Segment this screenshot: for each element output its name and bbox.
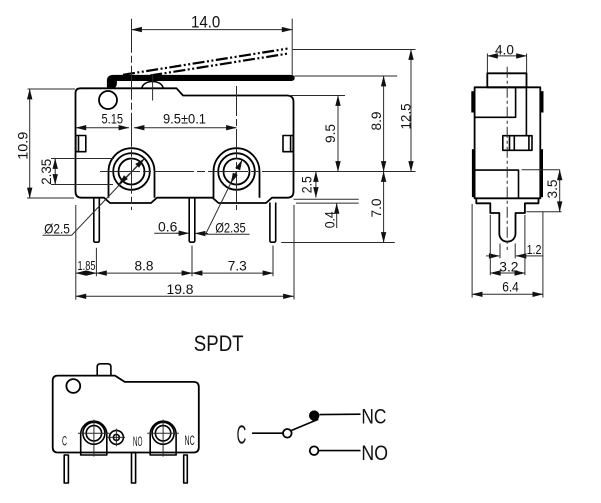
svg-text:5.15: 5.15 bbox=[102, 112, 124, 127]
front view right notch bbox=[283, 136, 293, 152]
bottom extension lines and pin centerlines bbox=[76, 205, 294, 300]
dimension 8.9 bbox=[369, 76, 384, 172]
svg-text:Ø2.5: Ø2.5 bbox=[44, 220, 70, 236]
dimension 14.0 bbox=[132, 14, 293, 75]
side view lower tab left bbox=[472, 149, 475, 197]
leader and label Ø2.35 bbox=[206, 160, 250, 236]
terminal hole 1 housing bbox=[109, 148, 155, 198]
side view inner rectangle bottom bbox=[475, 170, 519, 198]
terminal hole 1 circles bbox=[113, 153, 150, 190]
dimension 12.5 bbox=[398, 50, 413, 172]
side view button bbox=[487, 73, 526, 87]
svg-text:1.85: 1.85 bbox=[78, 259, 96, 273]
side view base step and pin bbox=[476, 198, 538, 241]
dimension 3.5 bbox=[522, 170, 562, 212]
side view top tab right bbox=[540, 91, 543, 112]
dimension 9.5 vertical bbox=[323, 96, 338, 172]
dimension 9.5±0.1 bbox=[134, 112, 237, 128]
dimension 10.9 bbox=[15, 89, 75, 198]
dimension 2.5 vertical bbox=[299, 172, 316, 198]
side view vertical centerline bbox=[506, 67, 508, 250]
small switch label C bbox=[62, 434, 67, 449]
small switch right terminal circles bbox=[147, 420, 179, 457]
side view inner rectangle top bbox=[475, 87, 516, 117]
dimension 1.2 bbox=[486, 242, 543, 258]
plunger centerline bbox=[152, 74, 154, 101]
dimension 4.0 bbox=[487, 43, 526, 73]
right side reference lines bbox=[281, 50, 415, 243]
small switch label NC bbox=[185, 433, 195, 448]
schematic NO contact (open circle) bbox=[310, 446, 319, 455]
vertical centerline hole 1 / 14.0 extension bbox=[131, 19, 133, 210]
schematic label NC bbox=[361, 404, 386, 428]
small switch button bbox=[97, 364, 111, 376]
front view breather hole circle bbox=[99, 91, 117, 109]
terminal hole 2 housing bbox=[214, 148, 260, 198]
small switch left terminal circles bbox=[78, 420, 110, 457]
svg-text:Ø2.35: Ø2.35 bbox=[215, 220, 246, 236]
small switch pin NO bbox=[132, 453, 136, 484]
lever arm pressed position (thick bar) bbox=[107, 75, 294, 88]
svg-text:8.9: 8.9 bbox=[369, 112, 384, 131]
small switch right terminal housing bbox=[150, 421, 176, 455]
svg-text:3.2: 3.2 bbox=[499, 259, 518, 274]
svg-text:0.6: 0.6 bbox=[158, 219, 178, 235]
svg-text:12.5: 12.5 bbox=[398, 104, 413, 130]
schematic label C bbox=[237, 419, 247, 449]
svg-text:NO: NO bbox=[133, 434, 143, 449]
side view middle widget bbox=[503, 136, 532, 151]
dimension 2.35 bbox=[39, 159, 114, 185]
front pin 2 bbox=[189, 198, 195, 243]
small switch middle rivet bbox=[108, 429, 126, 447]
dimension 8.8 bbox=[96, 259, 192, 274]
dimension 0.4 vertical bbox=[322, 203, 337, 228]
dimension 3.2 bbox=[490, 215, 525, 275]
small switch label NO bbox=[133, 434, 143, 449]
schematic NC contact (filled circle) bbox=[309, 410, 319, 420]
SPDT label bbox=[194, 331, 244, 356]
dimension 0.6 bbox=[154, 219, 208, 235]
small switch corner circle bbox=[66, 379, 80, 393]
svg-text:1.2: 1.2 bbox=[527, 242, 542, 257]
svg-text:7.0: 7.0 bbox=[369, 199, 384, 218]
schematic wire from C bbox=[252, 432, 283, 434]
terminal hole 2 circles bbox=[218, 153, 255, 190]
svg-text:8.8: 8.8 bbox=[135, 259, 154, 274]
lever arm released position (phantom dash-dot-dot lines) bbox=[123, 49, 289, 80]
svg-text:9.5±0.1: 9.5±0.1 bbox=[163, 112, 206, 127]
front view plunger dome under lever bbox=[142, 82, 163, 89]
small switch left terminal housing bbox=[81, 421, 107, 455]
schematic lever wire bbox=[291, 419, 318, 430]
svg-text:3.5: 3.5 bbox=[545, 180, 560, 199]
svg-text:2.5: 2.5 bbox=[299, 176, 314, 193]
dimension 5.15 bbox=[76, 112, 129, 128]
front view left notch bbox=[76, 136, 86, 152]
leader and label Ø2.5 bbox=[43, 159, 145, 237]
schematic label NO bbox=[361, 441, 388, 465]
svg-text:7.3: 7.3 bbox=[228, 259, 247, 274]
schematic wire to NC bbox=[320, 413, 361, 415]
front pin 1 bbox=[94, 198, 100, 243]
svg-text:14.0: 14.0 bbox=[191, 14, 220, 32]
svg-text:NO: NO bbox=[361, 441, 388, 465]
svg-text:4.0: 4.0 bbox=[495, 43, 514, 58]
schematic pivot contact (open circle) bbox=[283, 429, 292, 438]
dimension 6.4 bbox=[472, 204, 543, 298]
svg-text:SPDT: SPDT bbox=[194, 331, 244, 356]
svg-text:10.9: 10.9 bbox=[15, 132, 30, 160]
svg-text:6.4: 6.4 bbox=[502, 280, 519, 295]
svg-text:2.35: 2.35 bbox=[39, 159, 54, 185]
schematic wire to NO bbox=[319, 450, 361, 452]
dimension 7.0 bbox=[369, 172, 384, 243]
svg-text:NC: NC bbox=[185, 433, 195, 448]
small switch pin C bbox=[64, 455, 68, 483]
front pin 3 bbox=[270, 203, 276, 243]
svg-text:C: C bbox=[62, 434, 67, 449]
vertical centerline hole 2 bbox=[236, 86, 238, 210]
small switch figure body bbox=[53, 376, 199, 453]
small switch pin NC bbox=[184, 455, 188, 483]
dimension 1.85 bbox=[76, 259, 97, 273]
dimension 7.3 bbox=[192, 259, 273, 274]
svg-text:9.5: 9.5 bbox=[323, 124, 338, 143]
side view lower tab right bbox=[540, 149, 543, 197]
dimension 19.8 bbox=[76, 282, 294, 297]
side view internal line from button edge bbox=[525, 87, 527, 135]
svg-text:0.4: 0.4 bbox=[322, 211, 337, 228]
svg-text:C: C bbox=[237, 419, 247, 449]
svg-text:19.8: 19.8 bbox=[167, 282, 194, 297]
horizontal centerline through holes bbox=[100, 171, 416, 173]
svg-text:NC: NC bbox=[361, 404, 386, 428]
front view main body outline bbox=[76, 88, 294, 203]
side view top tab left bbox=[471, 91, 474, 112]
side view body bbox=[475, 87, 541, 198]
